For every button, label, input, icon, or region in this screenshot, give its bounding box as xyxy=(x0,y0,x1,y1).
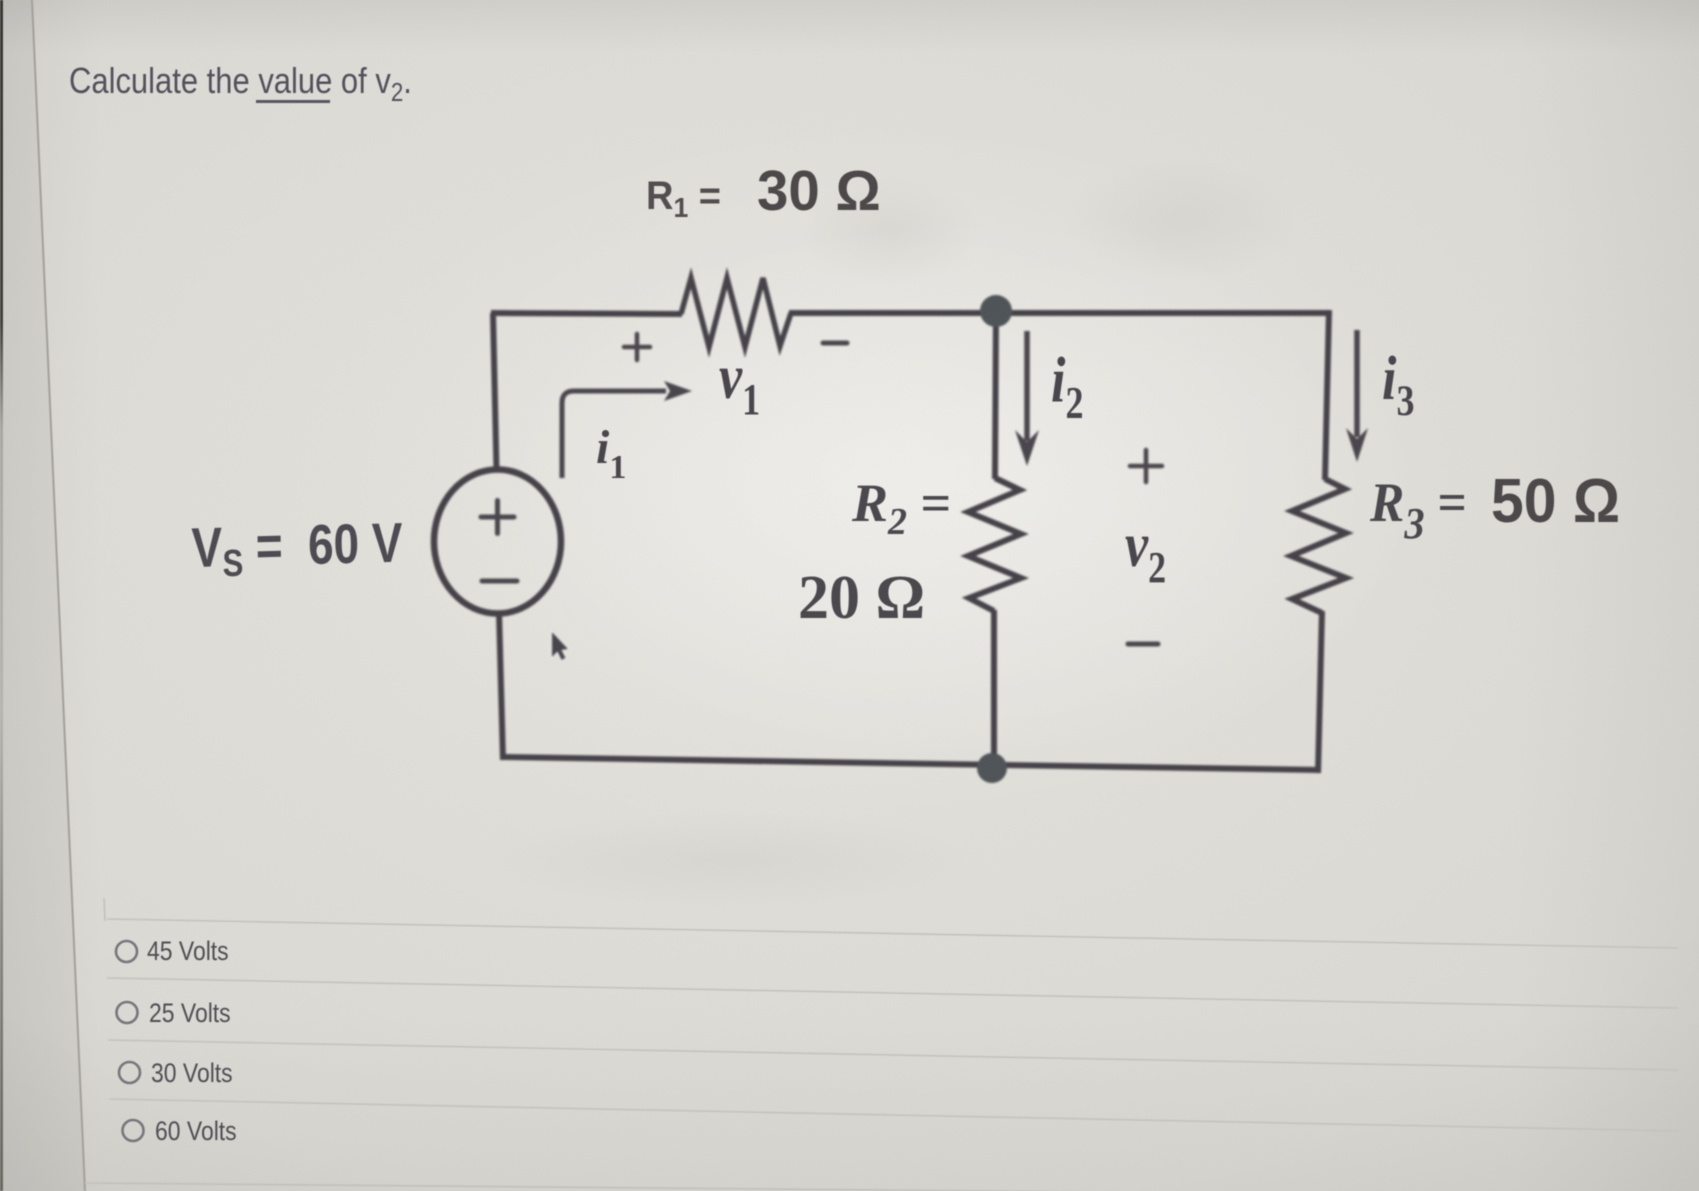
current arrow i2 xyxy=(1015,331,1039,466)
radio button: 30 Volts xyxy=(119,1062,140,1083)
options separator 2 xyxy=(107,978,1678,1008)
question title underline xyxy=(256,100,330,103)
option 25 Volts xyxy=(149,998,231,1029)
current arrow i3 xyxy=(1346,330,1368,462)
wire: Vs top lead (left vertical upper) xyxy=(493,313,497,470)
option 30 Volts xyxy=(151,1058,233,1089)
current arrow i1 xyxy=(562,381,692,478)
options separator 4 xyxy=(109,1099,1678,1131)
label R2 xyxy=(852,472,951,544)
answers fieldset corner segment xyxy=(104,898,105,921)
label i1 xyxy=(596,420,626,487)
radio button: 45 Volts xyxy=(116,941,137,962)
option 45 Volts xyxy=(147,936,229,967)
polarity minus (v2) xyxy=(1128,642,1158,647)
polarity plus (v2) xyxy=(1130,450,1162,482)
polarity minus (right of R1) xyxy=(823,341,847,346)
wire: right vertical lower xyxy=(1318,611,1322,773)
label R1 value xyxy=(646,174,721,224)
label R3 xyxy=(1370,471,1467,549)
wire: top segment right of R1 xyxy=(789,310,1330,316)
label v2 xyxy=(1125,510,1166,593)
options separator 3 xyxy=(108,1040,1678,1070)
node B (bottom junction) xyxy=(977,753,1007,783)
wire: top segment left of R1 xyxy=(491,313,682,314)
Vs minus sign xyxy=(482,579,517,584)
polarity plus (left of R1) xyxy=(624,334,650,360)
screen left dark edge xyxy=(0,0,3,1191)
wire: right vertical upper xyxy=(1325,310,1329,480)
soft photo blotches xyxy=(760,150,1020,310)
voltage source Vs xyxy=(434,470,561,614)
question title xyxy=(69,60,412,108)
wire: bottom segment xyxy=(503,757,1321,770)
wire: middle vertical upper (node A to R2) xyxy=(995,309,996,479)
label R3 value 50 ohm xyxy=(1491,466,1620,537)
label i2 xyxy=(1051,344,1083,429)
Vs plus sign xyxy=(481,501,514,534)
label R2 value 20 ohm xyxy=(798,563,925,634)
node A (top junction) xyxy=(980,295,1012,327)
resistor R3 xyxy=(1291,479,1346,613)
radio button: 60 Volts xyxy=(123,1120,144,1141)
resistor R1 xyxy=(681,278,791,347)
label v1 xyxy=(719,342,760,425)
wire: middle vertical lower (R2 to node B) xyxy=(991,610,997,768)
card left border (slanted) xyxy=(32,0,85,1191)
label Vs value xyxy=(191,510,403,587)
wire: Vs bottom lead (left vertical lower) xyxy=(499,612,503,760)
options bottom border xyxy=(85,1183,1690,1191)
option 60 Volts xyxy=(155,1116,237,1147)
options separator 1 xyxy=(107,919,1678,948)
soft bright patch behind pasted circuit figure xyxy=(310,90,1610,890)
resistor R2 xyxy=(968,478,1021,611)
mouse cursor xyxy=(552,632,568,660)
label i3 xyxy=(1382,344,1414,426)
radio button: 25 Volts xyxy=(117,1002,138,1023)
